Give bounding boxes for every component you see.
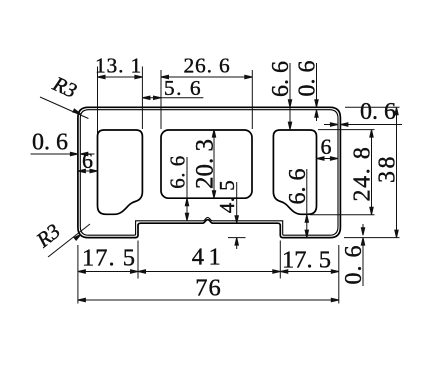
right chamber <box>273 130 316 214</box>
dimension 76 <box>78 275 339 302</box>
dimension 38 <box>344 107 401 237</box>
svg-text:6: 6 <box>82 148 93 173</box>
svg-text:24. 8: 24. 8 <box>350 146 376 202</box>
dimension 0.6 left wall <box>31 130 95 156</box>
dimension 5.6 <box>142 76 203 100</box>
svg-text:0. 6: 0. 6 <box>32 130 68 156</box>
dimension 4.5 <box>215 180 246 249</box>
svg-text:5. 6: 5. 6 <box>164 76 202 100</box>
dimension 13.1 <box>95 54 142 135</box>
middle chamber <box>161 130 252 198</box>
dimension 6.6 top (top wall to chamber top) <box>268 61 294 130</box>
svg-text:76: 76 <box>195 275 222 302</box>
left chamber <box>98 130 143 214</box>
svg-text:13. 1: 13. 1 <box>95 54 142 78</box>
svg-text:26. 6: 26. 6 <box>184 54 231 78</box>
svg-text:38: 38 <box>375 154 401 183</box>
dimension 17.5 right <box>280 245 339 304</box>
svg-text:6. 6: 6. 6 <box>285 169 311 205</box>
dimension 6 right <box>317 134 338 160</box>
dimension 0.6 bottom wall <box>341 224 367 286</box>
svg-text:6. 6: 6. 6 <box>166 155 190 189</box>
svg-text:17. 5: 17. 5 <box>282 247 331 274</box>
dimension 0.6 right wall <box>324 99 402 126</box>
dimension 0.6 top wall <box>295 61 321 122</box>
svg-text:0. 6: 0. 6 <box>341 245 367 285</box>
radius label R3 bottom-left <box>31 219 90 257</box>
svg-text:6: 6 <box>321 134 332 159</box>
outer profile contour <box>78 107 341 237</box>
radius label R3 top-left <box>40 71 88 119</box>
dimension 24.8 <box>310 130 376 215</box>
dimension 20.3 <box>191 130 218 199</box>
dimension 6.6 middle web <box>166 155 190 221</box>
dimension 17.5 left <box>78 241 138 304</box>
svg-text:17. 5: 17. 5 <box>82 245 136 272</box>
dimension 6.6 right web <box>285 169 311 238</box>
svg-text:41: 41 <box>192 244 226 271</box>
dimension 26.6 <box>161 54 252 130</box>
dimension 6 left <box>78 148 98 173</box>
svg-text:0. 6: 0. 6 <box>360 99 396 125</box>
svg-text:0. 6: 0. 6 <box>295 61 321 97</box>
inner wall contour <box>80 110 338 236</box>
dimension 41 <box>138 241 280 279</box>
svg-text:6. 6: 6. 6 <box>268 61 294 97</box>
svg-text:4. 5: 4. 5 <box>215 180 239 214</box>
